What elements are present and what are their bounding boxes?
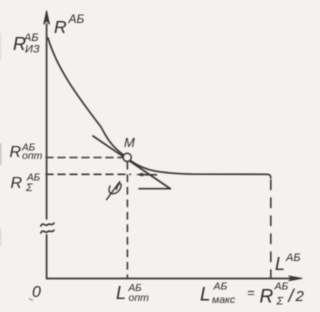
svg-text:опт: опт <box>129 292 150 304</box>
dashed level R_opt <box>46 157 123 159</box>
psi glyph <box>109 184 121 194</box>
x-axis arrowhead <box>289 276 303 281</box>
svg-text:АБ: АБ <box>213 281 228 293</box>
svg-text:Σ: Σ <box>25 182 33 194</box>
svg-text:L: L <box>116 283 126 303</box>
dashed vertical L_max <box>270 180 272 278</box>
svg-text:R: R <box>54 17 67 37</box>
dashed level R_sigma <box>46 173 131 175</box>
horizontal ray with left arrow <box>140 174 157 176</box>
svg-text:L: L <box>200 285 211 306</box>
scan edge artifacts <box>0 143 2 165</box>
y-axis <box>46 24 48 219</box>
svg-text:R: R <box>11 175 23 192</box>
svg-text:2: 2 <box>295 288 305 305</box>
svg-text:АБ: АБ <box>23 32 39 44</box>
point M circle <box>123 153 131 161</box>
svg-text:L: L <box>275 254 285 274</box>
triangle base <box>139 188 171 190</box>
dashed vertical L_opt <box>126 163 128 279</box>
svg-text:=: = <box>247 285 255 300</box>
svg-text:АБ: АБ <box>274 281 289 293</box>
svg-text:Σ: Σ <box>276 296 284 308</box>
y-axis arrowhead <box>44 11 50 25</box>
tangent line at M <box>93 136 170 189</box>
svg-text:0: 0 <box>32 284 41 301</box>
svg-text:R: R <box>10 144 22 161</box>
svg-text:АБ: АБ <box>285 252 301 264</box>
y-axis break squiggle <box>41 223 54 226</box>
svg-text:R: R <box>260 287 274 308</box>
x-axis <box>47 278 292 280</box>
svg-text:M: M <box>124 135 135 150</box>
svg-text:АБ: АБ <box>68 12 85 26</box>
svg-text:ИЗ: ИЗ <box>25 44 40 56</box>
svg-text:макс: макс <box>212 294 236 306</box>
curve R(L) <box>48 38 125 156</box>
svg-text:опт: опт <box>22 150 43 162</box>
